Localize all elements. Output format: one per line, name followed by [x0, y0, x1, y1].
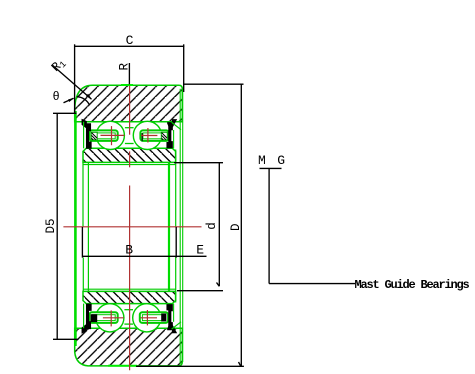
svg-text:R: R — [118, 63, 132, 71]
svg-text:D5: D5 — [44, 218, 58, 233]
svg-text:M: M — [258, 153, 266, 168]
svg-text:E: E — [196, 243, 204, 258]
svg-text:Mast Guide Bearings: Mast Guide Bearings — [355, 278, 470, 292]
svg-text:G: G — [277, 153, 285, 168]
svg-text:D: D — [229, 223, 243, 231]
svg-text:B: B — [125, 243, 133, 258]
svg-text:d: d — [205, 222, 219, 230]
svg-text:θ: θ — [53, 90, 60, 104]
svg-text:C: C — [126, 33, 134, 48]
